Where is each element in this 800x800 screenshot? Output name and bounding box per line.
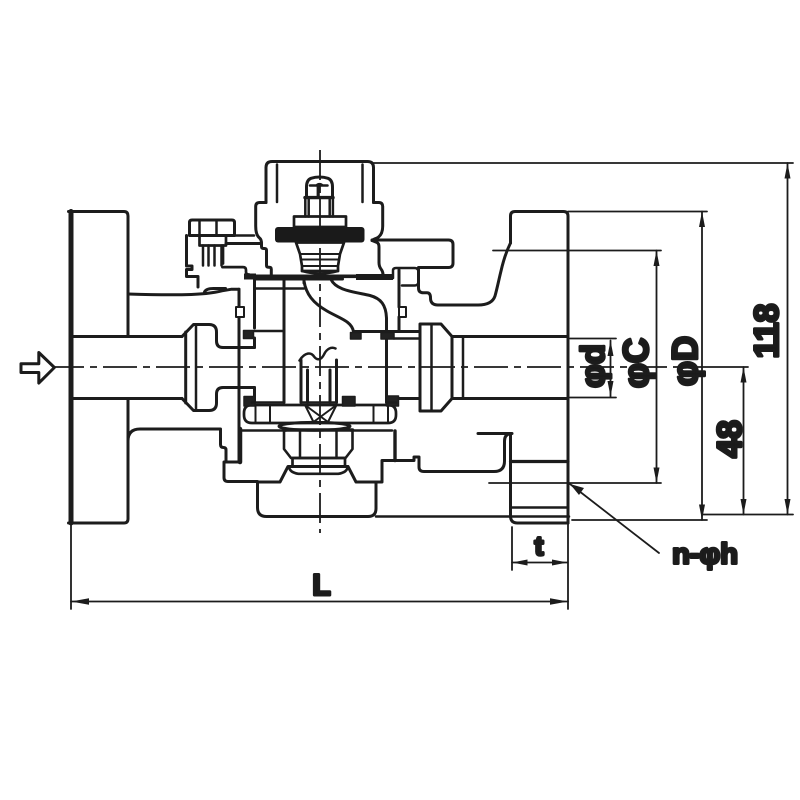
cage stub line	[255, 330, 285, 333]
flow arrow	[21, 353, 54, 384]
right flange bolt hole bottom	[511, 506, 569, 509]
svg-text:118: 118	[748, 304, 786, 359]
left flange plate	[69, 212, 129, 524]
svg-text:φC: φC	[617, 338, 656, 388]
bonnet left lower wall	[262, 244, 272, 275]
left ledge	[226, 242, 262, 245]
left flange weld face (thick)	[69, 212, 74, 524]
dimension t line with arrows	[512, 562, 568, 564]
right wing ear	[372, 240, 453, 286]
stem bell disc stack	[296, 243, 344, 272]
bonnet shoulders	[256, 203, 383, 244]
drain cap dome	[289, 466, 348, 474]
right cage tab on joint	[393, 268, 419, 286]
48 top reference extension	[697, 366, 748, 368]
L dimension extension left	[70, 523, 72, 609]
body cavity floor right	[351, 429, 392, 432]
cage top line	[255, 287, 305, 290]
right wall tab	[399, 307, 406, 317]
bolt washer	[200, 236, 227, 246]
dimension 118 extension line top	[374, 162, 794, 164]
right flange left face segments	[511, 434, 569, 524]
dimension phi-C line with arrows	[656, 251, 658, 484]
right port bore lines	[399, 337, 568, 399]
svg-text:48: 48	[711, 420, 749, 458]
body left wall lower thick segment	[238, 429, 243, 462]
L dimension extension right	[567, 523, 569, 609]
svg-text:n-φh: n-φh	[672, 539, 738, 571]
dimension phi-D line with arrows	[701, 212, 703, 521]
plug right face	[385, 339, 388, 403]
svg-text:φD: φD	[666, 336, 705, 386]
bell bottom	[302, 271, 338, 274]
drain cap collar	[293, 458, 346, 466]
svg-text:t: t	[535, 531, 544, 561]
bonnet joint gasket left dark	[244, 274, 256, 280]
plug elbow inner wall	[304, 281, 354, 332]
plug left wall upper	[303, 279, 306, 283]
right body lower dark wall	[393, 431, 396, 461]
left wall tab	[236, 307, 244, 317]
crown center facet	[317, 186, 320, 197]
disc lines	[300, 254, 340, 266]
dimension phi-C extension lines	[489, 251, 661, 484]
crown dark lens	[316, 183, 323, 187]
crown inner line	[310, 184, 328, 187]
plug cage left face	[283, 279, 286, 403]
chamber left wall	[253, 279, 256, 405]
left seat collar	[182, 325, 255, 411]
plug lower walls	[301, 360, 337, 403]
stem hex section	[305, 198, 333, 217]
bonnet right lower wall	[372, 241, 383, 275]
plate internal verticals	[256, 405, 389, 423]
left seat dark blocks	[244, 331, 254, 339]
centerline vertical	[319, 150, 321, 533]
bracket arm	[205, 289, 226, 293]
left pipe bore bottom	[73, 397, 182, 400]
body right wall and hub top	[419, 243, 511, 305]
bonnet cap	[266, 162, 374, 203]
left flange hub top	[128, 289, 239, 294]
nut facets	[300, 430, 337, 458]
dimension 48 extension line	[702, 514, 793, 516]
svg-text:φd: φd	[574, 344, 611, 388]
chamber bottom line	[252, 401, 284, 404]
bracket under bolt	[222, 246, 249, 275]
nut top edge thick	[284, 428, 353, 432]
dimension t extension line	[511, 527, 513, 570]
right union collar	[420, 324, 452, 411]
dimension phi-d extension lines	[570, 339, 616, 398]
right seat dark blocks	[381, 333, 394, 340]
head-to-dome link line	[235, 234, 255, 237]
svg-text:L: L	[312, 569, 330, 602]
right chamber bottom	[387, 401, 397, 404]
body cavity floor left	[242, 429, 286, 432]
drain funnel with X	[305, 405, 337, 422]
bolt head facets	[200, 220, 217, 236]
plug break squiggle	[300, 348, 336, 361]
port pocket top line	[354, 330, 421, 333]
bolt head	[190, 220, 235, 236]
port bore top short line	[394, 337, 420, 340]
washer ellipse	[279, 422, 350, 430]
bottom cover plate	[244, 405, 396, 423]
plug bottom right seat dark	[343, 397, 356, 407]
dimension 48 line with arrows	[743, 367, 745, 515]
centerline horizontal	[50, 366, 697, 368]
bonnet joint gasket right dark	[356, 274, 393, 280]
right flange bolt hole top	[511, 460, 569, 463]
dimension 118 line with arrows	[787, 163, 789, 515]
plug elbow outer wall	[331, 280, 387, 332]
bracket left face	[187, 236, 199, 288]
bonnet body joint thick line	[249, 275, 393, 279]
bottom hex nut	[284, 430, 353, 458]
leader n-phi-h	[570, 484, 659, 553]
right hub bottom line	[478, 432, 511, 435]
right flange	[511, 212, 569, 524]
right collar inner lines	[432, 324, 464, 411]
right cage wall	[398, 270, 401, 332]
bottom pedestal right side steps	[376, 434, 512, 483]
plug top	[255, 278, 343, 281]
crown-hex divider thick	[305, 196, 333, 199]
left collar inner line	[195, 326, 198, 410]
cap inner walls	[277, 165, 363, 203]
gland packing black band	[275, 227, 365, 243]
pedestal-to-flange bottom line	[376, 515, 569, 518]
stem follower flange	[294, 217, 346, 228]
body left wall	[224, 289, 376, 516]
stem crown nut	[307, 177, 333, 197]
dimension phi-D extension lines	[568, 212, 707, 521]
bolt shaft	[203, 246, 222, 266]
dimension L line with arrows	[71, 601, 568, 603]
plug bottom	[301, 401, 337, 404]
mouth left seat dark	[351, 333, 362, 340]
left pipe bore top	[73, 335, 182, 338]
dimension phi-d line with arrows	[610, 341, 612, 397]
left flange hub bottom	[128, 429, 226, 462]
